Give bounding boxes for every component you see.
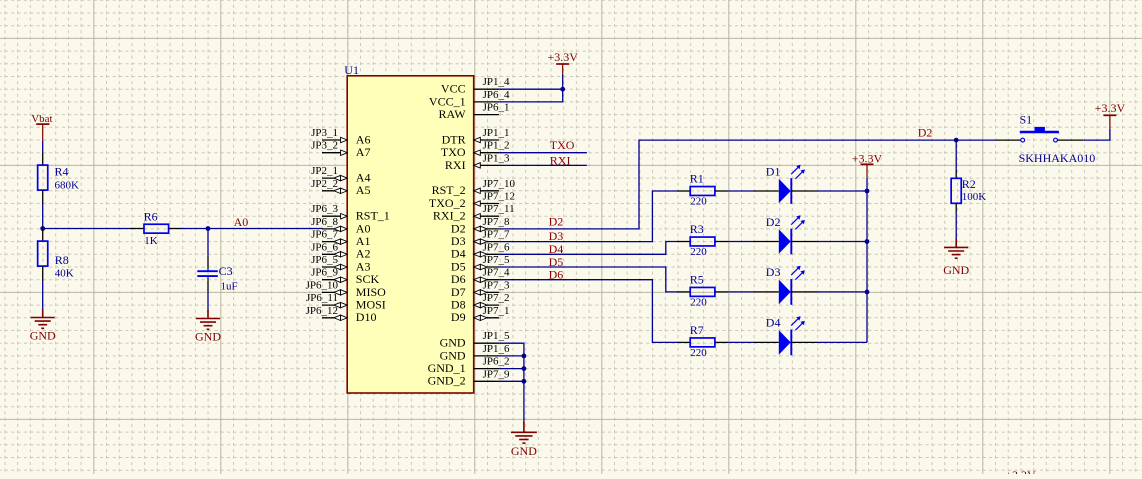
wire R8 to ground [42, 281, 44, 309]
wire S1 to +3.3V [1083, 129, 1110, 140]
svg-text:RXI: RXI [550, 154, 571, 168]
svg-text:JP1_6: JP1_6 [483, 343, 510, 355]
junction gnd bus 1 [522, 354, 527, 359]
pin JP7_8 / D2 [451, 216, 510, 235]
pin JP6_5 / A3 [311, 254, 370, 273]
led D2 [754, 215, 818, 255]
junction C3 tap [206, 226, 211, 231]
junction rail row1 [865, 189, 870, 194]
svg-text:GND: GND [30, 329, 56, 343]
svg-text:JP6_11: JP6_11 [306, 292, 338, 304]
svg-text:JP6_2: JP6_2 [483, 356, 510, 368]
junction gnd bus 3 [522, 379, 527, 384]
svg-text:GND_2: GND_2 [428, 374, 466, 388]
pin JP6_6 / A2 [311, 241, 370, 260]
pin JP7_11 / RXI_2 [433, 203, 515, 222]
wire D4 to R3 [499, 242, 677, 255]
svg-text:JP7_10: JP7_10 [483, 178, 516, 190]
wire D3 to R1 [499, 191, 677, 242]
pin JP6_4 / VCC_1 [429, 89, 510, 108]
svg-text:TXO: TXO [550, 138, 575, 152]
wire GND pin3 [499, 368, 524, 370]
svg-text:JP7_2: JP7_2 [483, 292, 510, 304]
pin JP7_6 / D4 [451, 241, 510, 260]
junction rail row2 [865, 239, 870, 244]
svg-text:R7: R7 [690, 323, 704, 337]
ground below R2 [944, 239, 968, 258]
svg-text:U1: U1 [344, 63, 359, 77]
pin JP7_4 / D6 [451, 267, 510, 286]
wire LED D4 to rail [817, 341, 867, 343]
pin JP7_7 / D3 [451, 229, 510, 248]
svg-text:R1: R1 [690, 172, 704, 186]
svg-text:R3: R3 [690, 222, 704, 236]
svg-text:D2: D2 [549, 214, 564, 228]
svg-text:JP2_2: JP2_2 [311, 178, 338, 190]
svg-text:D2: D2 [918, 126, 933, 140]
pin JP7_12 / TXO_2 [429, 191, 515, 210]
wire Vbat to R4 [42, 141, 44, 153]
resistor R7 [677, 323, 728, 359]
svg-text:D4: D4 [766, 316, 781, 330]
svg-text:220: 220 [690, 297, 707, 309]
svg-text:JP6_9: JP6_9 [311, 267, 338, 279]
wire +3.3V LED rail [866, 191, 868, 342]
led D1 [754, 164, 818, 204]
svg-text:S1: S1 [1020, 113, 1033, 127]
svg-text:D10: D10 [356, 310, 377, 324]
pin JP6_1 / RAW [439, 102, 510, 121]
led D3 [754, 265, 818, 305]
svg-text:JP1_5: JP1_5 [483, 330, 510, 342]
wire GND pin4 [499, 380, 524, 382]
svg-text:JP7_11: JP7_11 [483, 203, 515, 215]
wire R4 to divider node [42, 204, 44, 229]
svg-text:R2: R2 [962, 177, 976, 191]
svg-text:JP6_4: JP6_4 [483, 89, 510, 101]
switch S1 [995, 113, 1095, 165]
pin JP1_5 / GND [440, 330, 510, 349]
svg-text:JP6_5: JP6_5 [311, 254, 338, 266]
svg-text:A0: A0 [234, 215, 249, 229]
ground below U1 [511, 422, 537, 443]
svg-text:+3.3V: +3.3V [547, 50, 578, 64]
pin JP7_10 / RST_2 [432, 178, 516, 197]
pin JP2_2 / A5 [311, 178, 370, 197]
svg-text:JP1_1: JP1_1 [483, 127, 510, 139]
svg-text:+3.3V: +3.3V [852, 151, 883, 165]
pin JP1_3 / RXI [445, 152, 510, 171]
svg-text:JP3_1: JP3_1 [311, 127, 338, 139]
wire LED D2 to rail [817, 241, 867, 243]
wire R7 to LED D4 [728, 341, 753, 343]
svg-text:C3: C3 [219, 264, 233, 278]
junction gnd bus 2 [522, 366, 527, 371]
junction rail row3 [865, 290, 870, 295]
svg-text:220: 220 [690, 196, 707, 208]
svg-text:JP7_5: JP7_5 [483, 254, 510, 266]
wire VCC_1 to +3.3V [499, 89, 563, 102]
svg-text:JP7_8: JP7_8 [483, 216, 510, 228]
svg-text:JP7_4: JP7_4 [483, 267, 510, 279]
pin JP3_2 / A7 [311, 140, 370, 159]
svg-text:D3: D3 [766, 265, 781, 279]
svg-text:JP7_7: JP7_7 [483, 229, 510, 241]
svg-text:1K: 1K [144, 235, 158, 247]
pin JP2_1 / A4 [311, 165, 370, 184]
pin JP1_4 / VCC [441, 76, 510, 95]
svg-text:D1: D1 [766, 164, 781, 178]
svg-text:JP7_12: JP7_12 [483, 191, 515, 203]
svg-text:+3.3V: +3.3V [1095, 101, 1126, 115]
svg-text:JP7_3: JP7_3 [483, 279, 510, 291]
wire D2 node to S1 [956, 139, 995, 141]
pin JP3_1 / A6 [311, 127, 370, 146]
svg-text:220: 220 [690, 347, 707, 359]
svg-text:D6: D6 [549, 267, 564, 281]
svg-text:R5: R5 [690, 273, 704, 287]
svg-text:R6: R6 [144, 210, 158, 224]
wire D5 to R5 [499, 267, 677, 292]
ground below C3 [196, 310, 220, 329]
resistor R5 [677, 273, 728, 309]
pin JP7_3 / D7 [451, 279, 510, 298]
wire D2 node to R2 [955, 140, 957, 169]
svg-text:JP7_6: JP7_6 [483, 241, 510, 253]
svg-text:JP6_1: JP6_1 [483, 102, 510, 114]
wire R2 to ground [955, 212, 957, 240]
wire D6 to R7 [499, 280, 677, 343]
svg-text:D9: D9 [451, 310, 466, 324]
svg-text:680K: 680K [55, 180, 80, 192]
svg-text:JP1_3: JP1_3 [483, 152, 510, 164]
svg-text:D2: D2 [766, 215, 781, 229]
wire R1 to LED D1 [728, 190, 753, 192]
wire rail to power [866, 178, 868, 191]
resistor R2 [951, 169, 986, 212]
power +3.3V above U1 [556, 64, 569, 74]
capacitor C3 [197, 256, 237, 293]
wire R6 to pin JP6_8 (net A0) [181, 228, 322, 230]
svg-text:40K: 40K [55, 268, 74, 280]
ic U1 body [344, 63, 473, 393]
resistor R6 [130, 210, 182, 248]
power port Vbat [31, 113, 52, 141]
resistor R8 [38, 229, 74, 282]
wire LED D3 to rail [817, 291, 867, 293]
junction divider node [40, 226, 45, 231]
svg-text:GND: GND [943, 263, 969, 277]
svg-text:100K: 100K [962, 191, 987, 203]
svg-text:JP6_7: JP6_7 [311, 229, 338, 241]
pin JP1_1 / DTR [442, 127, 510, 146]
junction D2 node [954, 138, 959, 143]
svg-text:Vbat: Vbat [31, 113, 52, 125]
pin JP7_5 / D5 [451, 254, 510, 273]
svg-text:GND: GND [511, 444, 537, 458]
wire GND bus [499, 343, 524, 424]
pin JP6_7 / A1 [311, 229, 370, 248]
svg-text:RXI: RXI [445, 158, 466, 172]
resistor R3 [677, 222, 728, 258]
svg-text:JP1_2: JP1_2 [483, 140, 510, 152]
power +3.3V at LED rail [861, 164, 874, 178]
svg-text:R4: R4 [55, 165, 69, 179]
pin JP6_10 / MISO [306, 279, 387, 298]
svg-text:RAW: RAW [439, 107, 467, 121]
wire VCC to +3.3V [499, 88, 563, 90]
wire LED D1 to rail [817, 190, 867, 192]
wire D2 from pin [499, 140, 956, 229]
svg-text:SKHHAKA010: SKHHAKA010 [1019, 151, 1096, 165]
svg-text:JP6_12: JP6_12 [306, 305, 338, 317]
wire C3 to ground [207, 292, 209, 312]
resistor R1 [677, 172, 728, 208]
svg-text:JP1_4: JP1_4 [483, 76, 510, 88]
wire R5 to LED D3 [728, 291, 753, 293]
resistor R4 [38, 152, 79, 203]
svg-text:JP6_10: JP6_10 [306, 279, 339, 291]
svg-text:JP6_6: JP6_6 [311, 241, 338, 253]
svg-text:1uF: 1uF [221, 280, 238, 292]
svg-text:220: 220 [690, 246, 707, 258]
svg-text:R8: R8 [55, 253, 69, 267]
pin JP7_2 / D8 [451, 292, 510, 311]
wire C3 tap down [207, 229, 209, 256]
svg-text:JP6_3: JP6_3 [311, 203, 338, 215]
wire GND pin2 [499, 355, 524, 357]
wire TXO [499, 152, 587, 154]
svg-text:JP7_9: JP7_9 [483, 368, 510, 380]
svg-text:+3.3V: +3.3V [1005, 468, 1036, 474]
pin JP6_2 / GND_1 [428, 356, 510, 375]
wire RXI [499, 164, 587, 166]
pin JP1_2 / TXO [441, 140, 510, 159]
wire up to power [562, 74, 564, 89]
pin JP6_8 / A0 [311, 216, 370, 235]
power +3.3V at S1 [1103, 115, 1116, 129]
svg-text:JP3_2: JP3_2 [311, 140, 338, 152]
junction VCC node [560, 87, 565, 92]
svg-text:JP6_8: JP6_8 [311, 216, 338, 228]
pin JP6_3 / RST_1 [311, 203, 390, 222]
svg-text:GND: GND [195, 329, 221, 343]
wire divider node to R6 [43, 228, 130, 230]
pin JP7_9 / GND_2 [428, 368, 510, 387]
svg-text:JP2_1: JP2_1 [311, 165, 338, 177]
wire R3 to LED D2 [728, 241, 753, 243]
pin JP6_12 / D10 [306, 305, 377, 324]
svg-text:A5: A5 [356, 183, 371, 197]
svg-text:A7: A7 [356, 145, 371, 159]
pin JP6_9 / SCK [311, 267, 379, 286]
svg-text:JP7_1: JP7_1 [483, 305, 510, 317]
pin JP6_11 / MOSI [306, 292, 386, 311]
led D4 [754, 316, 818, 356]
pin JP7_1 / D9 [451, 305, 510, 324]
pin JP1_6 / GND [440, 343, 510, 362]
ground below R8 [31, 309, 55, 328]
